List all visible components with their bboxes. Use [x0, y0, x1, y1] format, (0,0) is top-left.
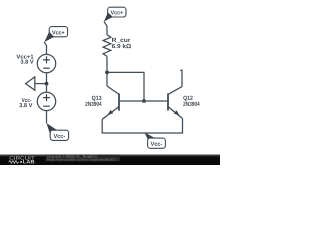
ground	[35, 83, 47, 85]
wire Q12 collector stub	[180, 70, 182, 86]
V2 labels	[22, 98, 32, 102]
net flag Vcc+ (left, above V1)	[49, 27, 67, 37]
Q12 emitter arrow	[174, 110, 180, 115]
base wire Q13-Q12	[119, 100, 168, 102]
wire resistor bottom to Q13 collector	[106, 56, 108, 86]
footer source text	[47, 155, 97, 158]
wire flag to resistor top	[104, 21, 107, 34]
wire Q13 emitter to rail	[102, 119, 182, 134]
net flag Vcc- (left bottom)	[46, 123, 58, 133]
footer black banner	[0, 155, 220, 165]
CircuitLab logo	[10, 156, 35, 159]
resistor R_cur zigzag	[103, 35, 111, 57]
wire node to base riser (horizontal)	[107, 72, 144, 101]
voltage source V1 (Vcc+1 3.8 V)	[37, 54, 55, 72]
Q12 label	[183, 96, 192, 101]
V1 labels	[16, 55, 33, 59]
junction dot mid	[45, 82, 49, 86]
transistor Q12 (NPN)	[168, 87, 183, 119]
node junction dot (base net)	[142, 99, 146, 103]
net flag Vcc+ (top, above R_cur)	[108, 7, 126, 17]
transistor Q13 (mirrored NPN)	[102, 86, 119, 119]
resistor label R_cur 6.9 kOhm	[112, 38, 130, 43]
wire V1 to V2	[46, 73, 48, 92]
Q13 label	[92, 96, 102, 101]
Q13 emitter arrow	[108, 110, 114, 115]
net flag Vcc- (bottom center)	[144, 132, 155, 139]
wire flag to V1 top	[44, 42, 46, 54]
node junction dot (collector/R)	[105, 71, 109, 75]
wire V2 bottom to flag	[46, 111, 48, 124]
footer text backdrop	[45, 155, 120, 162]
voltage source V2 (Vcc- 3.8 V)	[37, 92, 55, 110]
